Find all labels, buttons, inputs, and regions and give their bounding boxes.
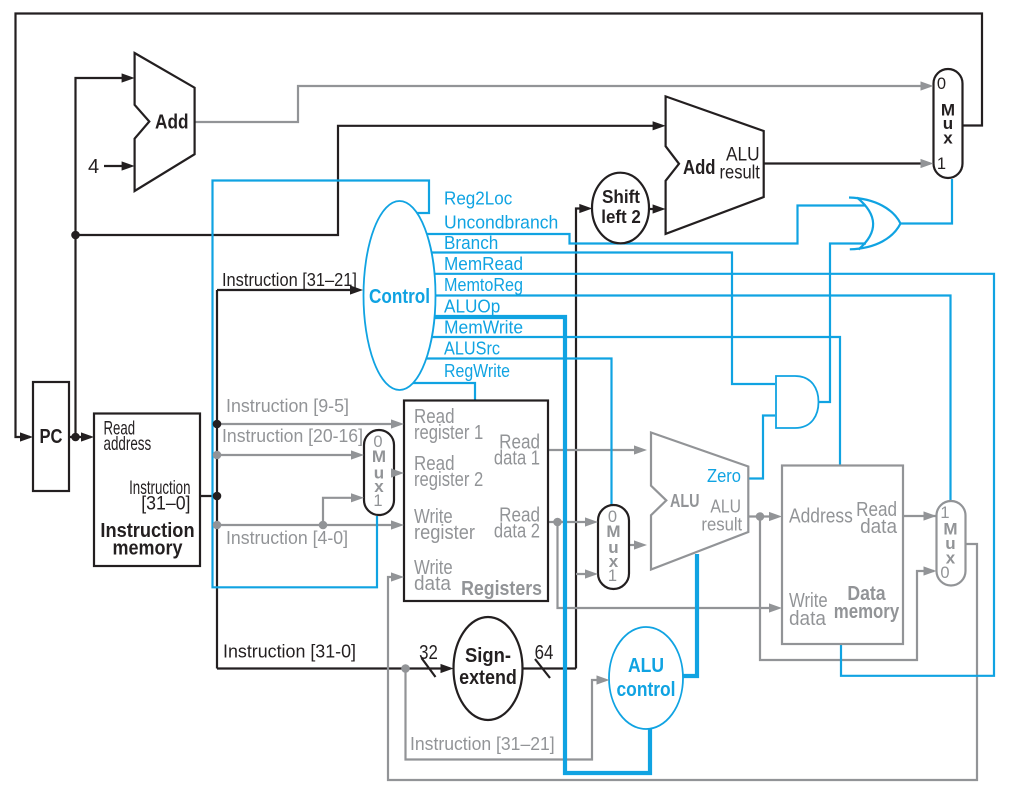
wire pc branch to Add(branch) top input: [76, 126, 663, 235]
wire rightmux output writeback to Write data of registers: [388, 544, 977, 780]
svg-text:1: 1: [937, 155, 946, 173]
arrow into ALU control: [597, 675, 610, 684]
wire Uncondbranch to OR gate: [404, 206, 866, 244]
wire ALU result to Address: [748, 515, 778, 517]
wire Instruction [4-0] to Write register: [217, 524, 400, 526]
slash 32-bit: [422, 658, 436, 677]
svg-text:result: result: [701, 515, 742, 535]
arrow into write data registers: [391, 572, 404, 581]
OR gate top arc: [849, 198, 901, 224]
shift left 2 oval: [592, 173, 649, 244]
junction node instr 4-0 branch: [319, 521, 328, 530]
svg-text:data 2: data 2: [494, 520, 540, 542]
junction node PC out: [71, 433, 80, 442]
svg-text:Add: Add: [155, 112, 189, 134]
svg-text:RegWrite: RegWrite: [444, 361, 510, 381]
svg-text:Instruction [31–21]: Instruction [31–21]: [410, 734, 555, 754]
svg-text:Control: Control: [369, 285, 430, 308]
wire ALU control thick to ALU: [660, 554, 697, 676]
svg-text:Add: Add: [683, 157, 716, 179]
wire Add(+4) output to mux4 input 0: [195, 86, 930, 122]
svg-text:register 2: register 2: [414, 469, 483, 491]
wire Read data 1 to ALU: [548, 449, 643, 451]
wire Instruction [31-21] to Control: [217, 289, 359, 291]
slash 64-bit: [535, 659, 550, 678]
wire pc-feedback loop (mux4 output around top and left to PC): [16, 14, 983, 438]
sign-extend oval: [454, 617, 523, 720]
wire Reg2Loc to regmux select: [213, 181, 430, 588]
arrow into read register 2: [391, 468, 404, 477]
wire ALUOp thick to ALU control: [404, 317, 650, 773]
junction node instr 4-0: [213, 521, 222, 530]
ALU control oval: [609, 627, 683, 729]
junction node instruction out: [213, 492, 222, 501]
svg-text:64: 64: [535, 642, 554, 664]
arrow into write data memory: [769, 603, 782, 612]
wire OR output to mux4 select: [900, 179, 952, 224]
wire constant 4 into Add: [104, 165, 129, 167]
wire MemRead to data memory bottom: [404, 274, 994, 676]
arrow into ALU input top: [634, 445, 647, 454]
svg-text:Branch: Branch: [444, 233, 498, 253]
svg-text:[31–0]: [31–0]: [141, 493, 190, 515]
svg-text:1: 1: [608, 567, 617, 585]
junction node PC branch: [71, 231, 80, 240]
svg-text:memory: memory: [113, 537, 184, 559]
wire Branch to AND gate: [404, 253, 775, 385]
control oval: [364, 201, 436, 390]
arrow into regmux input1: [351, 493, 364, 502]
svg-text:data: data: [414, 573, 452, 595]
svg-text:Instruction [31-0]: Instruction [31-0]: [223, 642, 356, 662]
svg-text:MemRead: MemRead: [444, 254, 523, 274]
wire sign-extend up to shift left 2: [576, 209, 588, 669]
instruction memory box: [94, 414, 200, 567]
arrow into address: [769, 512, 782, 521]
mux4 (PC source mux, top right): [934, 69, 963, 178]
AND gate: [776, 376, 819, 428]
svg-text:Shift: Shift: [602, 187, 640, 207]
svg-text:ALU: ALU: [670, 491, 700, 511]
svg-text:Zero: Zero: [707, 466, 741, 486]
OR gate bottom arc: [850, 224, 901, 250]
wire pc to Add(+4) top input: [76, 78, 131, 437]
svg-text:Sign-: Sign-: [465, 645, 511, 667]
svg-text:address: address: [104, 433, 152, 455]
svg-text:Reg2Loc: Reg2Loc: [444, 189, 512, 209]
svg-text:Instruction [31–21]: Instruction [31–21]: [222, 270, 357, 290]
wire Read data 2 down to Write data of data memory: [558, 522, 779, 608]
svg-text:1: 1: [373, 492, 382, 510]
junction node instr 9-5: [213, 420, 222, 429]
svg-text:control: control: [617, 679, 676, 701]
svg-text:4: 4: [88, 156, 99, 178]
arrow into sign-extend: [441, 664, 454, 673]
arrow into alumux input0: [585, 517, 598, 526]
wire sign-extend stub to alumux input 1: [576, 573, 594, 575]
svg-text:ALUSrc: ALUSrc: [444, 339, 500, 359]
arrow into instruction memory: [81, 432, 94, 441]
regmux (register file input mux): [364, 430, 394, 515]
wire Instruction [31-21] to ALU control: [406, 669, 607, 760]
wire ALU result bypass to rightmux input 0: [760, 517, 934, 661]
svg-text:PC: PC: [40, 426, 63, 448]
adder Add (branch target): [666, 96, 764, 234]
ALU main: [651, 433, 748, 570]
registers box: [404, 401, 548, 602]
svg-text:Instruction [9-5]: Instruction [9-5]: [226, 396, 349, 416]
wire Instruction [9-5] to Read register 1: [217, 423, 400, 425]
arrow into mux4 input1: [921, 159, 934, 168]
junction node ALU result: [756, 512, 765, 521]
wire pc-out to instruction memory: [69, 436, 91, 438]
svg-text:Address: Address: [789, 506, 853, 528]
arrow into Control: [350, 285, 363, 294]
arrow into Add branch bottom: [653, 204, 666, 213]
wire alumux output to ALU: [629, 544, 643, 546]
arrow into rightmux input1: [924, 511, 937, 520]
junction node instr 20-16: [213, 451, 222, 460]
svg-text:MemWrite: MemWrite: [444, 318, 523, 338]
wire Instruction [20-16] to regmux input 0: [217, 454, 360, 456]
rightmux (writeback mux): [937, 501, 966, 586]
wire RegWrite to registers top: [404, 383, 475, 400]
svg-text:register: register: [414, 522, 475, 544]
arrow into regmux input0: [351, 450, 364, 459]
svg-text:x: x: [943, 129, 953, 148]
svg-text:ALUOp: ALUOp: [444, 297, 500, 317]
svg-text:result: result: [720, 162, 761, 183]
svg-text:left 2: left 2: [601, 207, 641, 227]
OR gate back arc: [857, 198, 873, 250]
arrow 4 into Add: [122, 161, 135, 170]
wire instruction vertical bus: [216, 290, 218, 669]
arrow into alumux input1: [585, 569, 598, 578]
svg-text:ALU: ALU: [710, 497, 741, 517]
svg-text:32: 32: [419, 642, 438, 664]
PC box: [33, 382, 69, 491]
wire AND output to OR gate: [818, 244, 866, 403]
svg-text:MemtoReg: MemtoReg: [444, 275, 523, 295]
arrow into Add+4 top: [122, 73, 135, 82]
svg-text:Instruction [4-0]: Instruction [4-0]: [226, 528, 348, 548]
svg-text:data: data: [860, 516, 898, 538]
arrow into rightmux input0: [924, 566, 937, 575]
svg-text:data 1: data 1: [494, 448, 540, 470]
svg-text:memory: memory: [834, 601, 900, 623]
arrow into read register 1: [391, 419, 404, 428]
wire instruction memory output: [200, 495, 217, 497]
junction node read data 2: [553, 518, 562, 527]
svg-text:Uncondbranch: Uncondbranch: [444, 213, 558, 233]
adder Add (PC+4): [135, 53, 195, 191]
wire Zero to AND gate: [748, 416, 775, 479]
wire MemtoReg to rightmux select: [404, 296, 951, 502]
arrow into PC: [20, 432, 33, 441]
wire shift left 2 to Add(branch) bottom input: [649, 208, 661, 210]
junction node instr 31-21 aluctl: [401, 664, 410, 673]
svg-text:0: 0: [937, 75, 946, 93]
svg-text:extend: extend: [459, 667, 517, 689]
wire regmux output to Read register 2: [394, 472, 400, 474]
data memory box: [782, 466, 903, 645]
svg-text:0: 0: [940, 564, 949, 582]
wire ALUSrc to alumux select: [404, 359, 612, 506]
svg-text:Instruction [20-16]: Instruction [20-16]: [222, 426, 363, 446]
wire MemWrite to data memory top: [404, 337, 840, 465]
wire Add(branch) ALU result to mux4 input 1: [764, 162, 930, 164]
arrow into write register: [391, 520, 404, 529]
arrow into mux4 input0: [921, 81, 934, 90]
wire sign-extend output: [522, 667, 576, 669]
alumux (ALU input mux): [598, 505, 629, 589]
wire Read data 2 to alumux input 0: [548, 521, 594, 523]
arrow into ALU input bottom: [634, 540, 647, 549]
svg-text:Registers: Registers: [461, 578, 542, 600]
arrow into shift left 2: [579, 204, 592, 213]
wire Read data of memory to rightmux input 1: [903, 515, 936, 517]
svg-text:data: data: [789, 608, 827, 630]
wire Instruction [4-0] branch to regmux input 1: [323, 498, 360, 525]
wire Instruction [31-0] to Sign-extend: [217, 667, 450, 669]
svg-text:register 1: register 1: [414, 422, 483, 444]
arrow into Add branch top: [653, 121, 666, 130]
svg-text:ALU: ALU: [628, 655, 664, 677]
